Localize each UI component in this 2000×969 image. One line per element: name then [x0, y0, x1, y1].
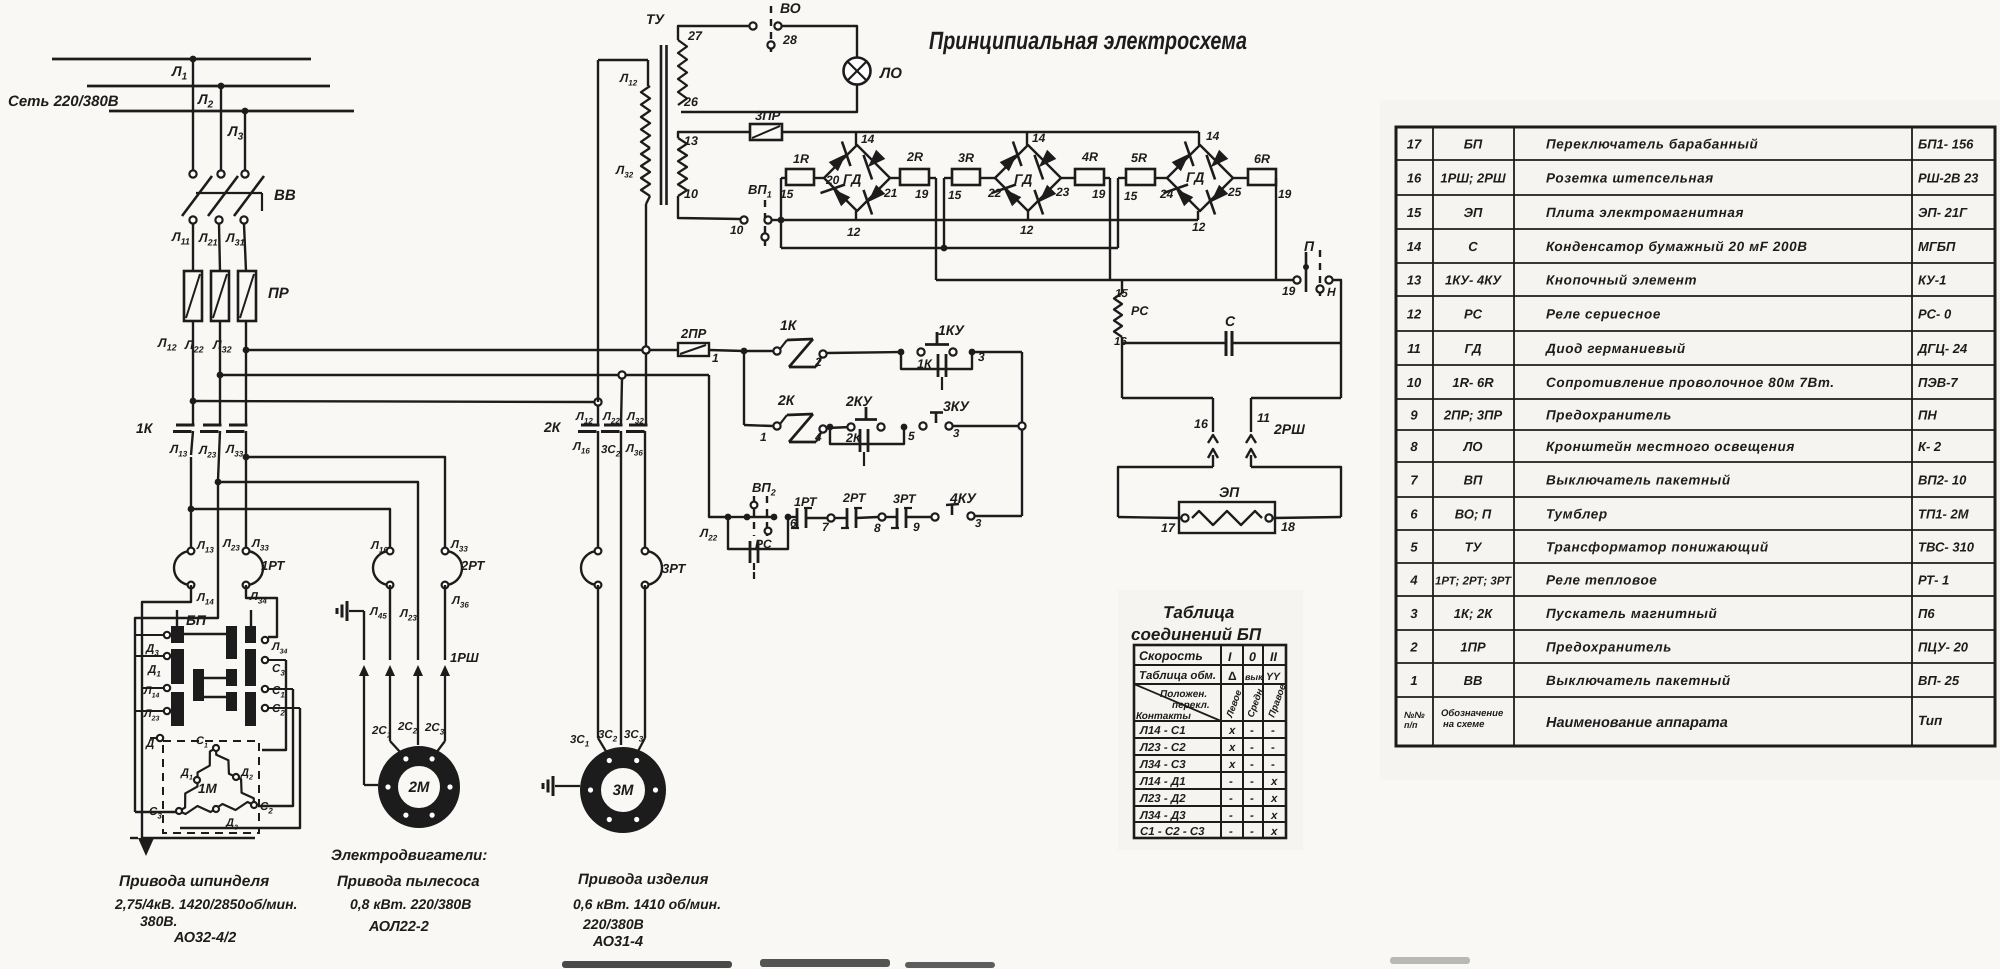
- svg-text:16: 16: [1194, 417, 1209, 431]
- svg-text:24: 24: [1159, 187, 1174, 201]
- terminal 7: [827, 514, 834, 521]
- svg-text:С: С: [1225, 313, 1236, 329]
- thermal contact 2РТ: [846, 508, 849, 528]
- svg-text:25: 25: [1227, 185, 1242, 199]
- wire Л33 down to 1РТ: [245, 457, 247, 547]
- junction before 2КУ: [827, 424, 834, 431]
- contactor 2К contact phase2: [604, 424, 623, 427]
- stop button 1КУ: [917, 348, 924, 355]
- thermal relay 2РТ heater left: [373, 551, 390, 585]
- thermal relay 2РТ heater right: [445, 551, 462, 585]
- svg-text:8: 8: [874, 521, 881, 535]
- wire fuse1 down to 1К: [192, 321, 194, 424]
- transformer ТУ primary winding Л12: [647, 60, 649, 86]
- svg-text:4КУ: 4КУ: [949, 490, 977, 506]
- contactor contact 1К in control row1: [773, 347, 780, 354]
- БП contact bar D1: [245, 626, 256, 643]
- svg-text:Принципиальная электросхема: Принципиальная электросхема: [929, 27, 1247, 55]
- ground arrow at 1М: [138, 838, 154, 856]
- junction branch Л13: [188, 506, 195, 513]
- wire plug upper bar left: [1122, 397, 1213, 399]
- relay РС coil: [1121, 280, 1123, 293]
- junction after 2КУ: [901, 424, 908, 431]
- svg-text:27: 27: [687, 29, 703, 43]
- svg-text:9: 9: [1410, 408, 1418, 423]
- svg-text:ПР: ПР: [268, 285, 290, 302]
- svg-text:ВО: ВО: [780, 0, 801, 16]
- svg-text:РС: РС: [1464, 307, 1483, 322]
- wire tap 10 to ВП1: [678, 196, 740, 219]
- switch ВВ linkage bar and label: [196, 192, 262, 194]
- button 3КУ: [919, 422, 926, 429]
- svg-text:-: -: [1250, 759, 1254, 771]
- wire ВВ to fuse ПР phase1: [192, 224, 194, 271]
- svg-text:1: 1: [760, 430, 767, 444]
- plug 2РШ pin 11 upper: [1250, 398, 1252, 432]
- wire branch Л33 to 2М feeder: [246, 457, 445, 547]
- svg-text:Привода пылесоса: Привода пылесоса: [337, 873, 480, 890]
- svg-text:x: x: [1228, 759, 1236, 771]
- wire Л13 down to 1РТ: [190, 457, 192, 547]
- svg-text:x: x: [1228, 742, 1236, 754]
- svg-text:ТУ: ТУ: [646, 11, 666, 27]
- svg-text:22: 22: [987, 186, 1002, 200]
- svg-text:11: 11: [1257, 411, 1270, 425]
- svg-text:Электродвигатели:: Электродвигатели:: [331, 847, 487, 864]
- БП contact bar D3: [245, 692, 256, 726]
- terminal circle on Л32 feed at transformer: [642, 346, 649, 353]
- wire tap 27 to ВО: [678, 26, 749, 40]
- svg-text:4R: 4R: [1081, 150, 1098, 164]
- transformer ТУ core: [660, 45, 663, 205]
- svg-text:2ПР: 2ПР: [680, 326, 707, 341]
- svg-text:ГД: ГД: [1186, 169, 1204, 185]
- svg-text:1М: 1М: [198, 781, 218, 796]
- svg-text:1R: 1R: [793, 152, 809, 166]
- БП contact bar C2: [226, 669, 237, 686]
- svg-text:ВП: ВП: [1464, 473, 1483, 488]
- БП contact bar A2: [171, 649, 184, 684]
- svg-text:I: I: [1228, 650, 1232, 664]
- contactor 1К contact phase2: [203, 424, 222, 427]
- thermal relay 3РТ heater right: [645, 551, 662, 585]
- start button 2КУ: [847, 423, 854, 430]
- svg-text:3М: 3М: [613, 782, 634, 799]
- wire 4КУ to bus: [975, 515, 1022, 517]
- junction after 1КУ: [969, 349, 976, 356]
- svg-text:ВП2- 10: ВП2- 10: [1918, 473, 1967, 488]
- bus circle row2: [1018, 422, 1025, 429]
- plug 1РШ pin 1: [385, 665, 395, 676]
- svg-text:Положен.: Положен.: [1160, 689, 1207, 700]
- resistor 4R: [1075, 169, 1104, 185]
- svg-text:1ПР: 1ПР: [1460, 640, 1486, 655]
- svg-text:19: 19: [915, 187, 929, 201]
- svg-text:Переключатель барабанный: Переключатель барабанный: [1546, 137, 1759, 152]
- svg-text:Предохранитель: Предохранитель: [1546, 640, 1672, 655]
- svg-text:1РТ; 2РТ; 3РТ: 1РТ; 2РТ; 3РТ: [1435, 576, 1512, 588]
- svg-text:2: 2: [1409, 640, 1418, 655]
- svg-text:3: 3: [1410, 606, 1418, 621]
- svg-text:Привода шпинделя: Привода шпинделя: [119, 873, 269, 890]
- motor 1М vertex С1: [213, 745, 219, 751]
- wire tap 13 to 3ПР: [678, 132, 750, 138]
- svg-text:Л23 - С2: Л23 - С2: [1139, 742, 1186, 754]
- wire 2С1 into motor: [390, 741, 401, 753]
- svg-text:4: 4: [1409, 573, 1418, 588]
- wire 2РТ right to plug: [444, 585, 446, 660]
- БП contact bar C3: [226, 692, 237, 711]
- wire Л32 winding down to 2К: [646, 196, 650, 204]
- БП tie link 2: [204, 677, 226, 679]
- toggle switch ВО: [749, 22, 756, 29]
- svg-text:Сопротивление проволочное 80: Сопротивление проволочное 80м 7Вт.: [1546, 375, 1835, 390]
- transformer ТУ secondary winding 27-26: [678, 40, 687, 105]
- svg-text:3КУ: 3КУ: [943, 398, 970, 414]
- svg-text:П: П: [1304, 238, 1315, 254]
- wire 7 to 2РТ: [835, 517, 847, 519]
- net Л1 supply bus: [52, 58, 311, 61]
- stub bridge1 bottom: [855, 211, 857, 220]
- svg-text:1К: 1К: [780, 317, 798, 333]
- plug 1РШ pin 2: [413, 665, 423, 676]
- wire 2R to drop 19: [929, 177, 936, 179]
- lamp ЛО: [844, 58, 871, 85]
- motor 2М: [388, 756, 450, 818]
- wire ЭП left lead: [1118, 517, 1181, 518]
- wire lamp to tap 26: [681, 84, 857, 112]
- motor 1М vertex С2: [251, 802, 257, 808]
- terminal 8: [878, 513, 885, 520]
- switch ВВ pole 1: [189, 170, 196, 177]
- svg-text:Плита электромагнитная: Плита электромагнитная: [1546, 205, 1744, 220]
- svg-text:С1 - С2 - С3: С1 - С2 - С3: [1140, 826, 1205, 838]
- riser 3R left from bus 15: [943, 178, 945, 248]
- БП input stub left: [176, 610, 178, 626]
- БП terminal С3 right: [262, 657, 268, 663]
- junction feed Л12: [190, 398, 197, 405]
- svg-text:10: 10: [730, 223, 744, 237]
- wire ground to plug 2М: [363, 611, 365, 660]
- plug 2РШ pin 16 upper: [1212, 398, 1214, 432]
- wire Л12 feed up to transformer: [597, 60, 599, 402]
- svg-text:8: 8: [1410, 439, 1418, 454]
- svg-text:Л34 - С3: Л34 - С3: [1139, 759, 1186, 771]
- capacitor С: [1122, 342, 1225, 344]
- svg-text:13: 13: [684, 134, 698, 148]
- svg-text:Реле сериесное: Реле сериесное: [1546, 307, 1661, 322]
- wire 2М phase mid: [417, 547, 419, 660]
- БП contact bar B1: [193, 669, 204, 701]
- thermal contact 1РТ: [796, 508, 799, 528]
- svg-text:ТП1- 2М: ТП1- 2М: [1918, 507, 1970, 522]
- wire ВВ to fuse ПР phase3: [244, 224, 246, 271]
- junction feed Л32: [243, 347, 250, 354]
- junction riser 3R: [941, 245, 948, 252]
- svg-text:2: 2: [814, 355, 822, 369]
- wire 3РТ right to motor: [644, 585, 646, 738]
- contactor contact 2К in control row2: [773, 422, 780, 429]
- drop 4R right to bus 19: [1109, 178, 1111, 280]
- stub bridge1 top: [855, 132, 857, 145]
- svg-text:14: 14: [1206, 129, 1220, 143]
- svg-text:ВП- 25: ВП- 25: [1918, 673, 1960, 688]
- riser 5R left from bus 15: [1117, 178, 1119, 248]
- net Л3 supply bus: [109, 110, 354, 113]
- plug 2РШ pin 11 lower: [1246, 449, 1256, 458]
- svg-text:23: 23: [1055, 185, 1070, 199]
- svg-text:Δ: Δ: [1228, 669, 1237, 683]
- svg-text:ГД: ГД: [1014, 171, 1032, 187]
- wire 1К to 1КУ: [827, 352, 901, 353]
- wire fuse2 down to 1К: [219, 321, 221, 424]
- wire plug lower bar right: [1251, 467, 1341, 517]
- svg-text:2К: 2К: [845, 431, 862, 445]
- wire ВВ to fuse ПР phase2: [219, 224, 220, 271]
- toggle switch П: [1293, 276, 1300, 283]
- junction feed Л22: [217, 372, 224, 379]
- БП tie link 1: [184, 633, 226, 635]
- wire row1 to row2 drop: [743, 351, 745, 425]
- svg-text:12: 12: [847, 225, 861, 239]
- svg-text:БП: БП: [186, 612, 207, 628]
- wire 2С3 into motor: [436, 741, 445, 753]
- svg-text:17: 17: [1407, 137, 1422, 152]
- net bus 15: [781, 247, 1118, 249]
- svg-text:0: 0: [1249, 650, 1256, 664]
- svg-text:Кронштейн местного освещения: Кронштейн местного освещения: [1546, 439, 1795, 454]
- svg-text:2КУ: 2КУ: [845, 393, 873, 409]
- junction branch Л23: [215, 479, 222, 486]
- svg-text:ЭП: ЭП: [1219, 484, 1240, 500]
- svg-text:ЛО: ЛО: [1462, 439, 1482, 454]
- switch ВП2: [753, 496, 755, 536]
- svg-text:РС- 0: РС- 0: [1918, 307, 1952, 322]
- svg-text:Конденсатор бумажный 20 мF: Конденсатор бумажный 20 мF 200В: [1546, 239, 1808, 254]
- svg-text:12: 12: [1407, 307, 1422, 322]
- bypass РС contact: [728, 517, 788, 549]
- wire 2РТ left to plug: [389, 585, 391, 660]
- wire bridge2 to 4R: [1061, 177, 1075, 179]
- parts table frame: [1396, 127, 1995, 746]
- motor 1М tap Д3: [213, 806, 219, 812]
- net Л2 supply bus: [87, 85, 330, 88]
- wire Л23 from 1РТ to БП left: [135, 590, 218, 812]
- resistor 1R: [786, 169, 814, 185]
- svg-text:19: 19: [1092, 187, 1106, 201]
- electromagnetic plate ЭП: [1179, 502, 1275, 533]
- svg-text:1КУ: 1КУ: [938, 322, 965, 338]
- svg-text:Тумблер: Тумблер: [1546, 507, 1608, 522]
- svg-text:на схеме: на схеме: [1443, 719, 1485, 730]
- resistor 6R: [1248, 169, 1276, 185]
- svg-text:10: 10: [684, 187, 698, 201]
- drop 2R right to bus 19: [935, 178, 937, 280]
- svg-text:ВВ: ВВ: [1464, 673, 1483, 688]
- svg-text:ГД: ГД: [843, 171, 861, 187]
- svg-text:БП: БП: [1464, 137, 1483, 152]
- wire plug lower bar left: [1118, 467, 1213, 517]
- thermal relay 1РТ heater phase3: [246, 551, 263, 585]
- wire ВО to lamp: [782, 26, 857, 58]
- stub bridge3 bottom: [1197, 211, 1199, 220]
- wire Л23 down to 1РТ: [217, 482, 219, 590]
- svg-text:6: 6: [1410, 507, 1418, 522]
- wire feed Л12: [193, 401, 594, 402]
- wire БП С1 to motor: [258, 689, 293, 806]
- БП contact bar A1: [171, 626, 184, 643]
- aux contact 1К holding: [901, 352, 972, 369]
- junction ВП1 riser: [778, 217, 785, 224]
- svg-text:15: 15: [1124, 189, 1138, 203]
- svg-text:21: 21: [883, 186, 898, 200]
- svg-text:Розетка штепсельная: Розетка штепсельная: [1546, 171, 1714, 186]
- svg-text:14: 14: [1407, 239, 1422, 254]
- svg-text:9: 9: [913, 520, 920, 534]
- БП input stub right: [250, 610, 252, 626]
- wire БП left lower to motor: [135, 811, 180, 813]
- svg-text:перекл.: перекл.: [1172, 700, 1210, 711]
- thermal contact 3РТ: [896, 508, 899, 528]
- junction row1: [741, 348, 748, 355]
- БП terminal Л14: [164, 685, 170, 691]
- svg-text:ПН: ПН: [1918, 408, 1937, 423]
- resistor 3R: [952, 169, 980, 185]
- svg-text:x: x: [1228, 725, 1236, 737]
- fuse 2ПР: [642, 346, 649, 353]
- switch ВВ pole 3: [241, 170, 248, 177]
- svg-text:14: 14: [1032, 131, 1046, 145]
- svg-text:Трансформатор понижающий: Трансформатор понижающий: [1546, 540, 1769, 555]
- wire 4R to drop 19: [1104, 177, 1110, 179]
- motor 1М winding С1-Д2-С2: [216, 748, 254, 805]
- fuse ПР phase2: [211, 271, 229, 321]
- svg-text:1КУ- 4КУ: 1КУ- 4КУ: [1445, 273, 1502, 288]
- svg-text:2К: 2К: [543, 419, 562, 435]
- connection table frame: [1134, 645, 1286, 838]
- resistor 5R: [1126, 169, 1155, 185]
- svg-text:К- 2: К- 2: [1918, 439, 1942, 454]
- wire bridge3 to 6R: [1233, 177, 1248, 179]
- svg-text:РС: РС: [1131, 304, 1149, 318]
- svg-text:3: 3: [953, 428, 960, 440]
- svg-text:Кнопочный элемент: Кнопочный элемент: [1546, 273, 1697, 288]
- svg-text:АО32-4/2: АО32-4/2: [173, 930, 236, 946]
- svg-text:5: 5: [908, 429, 915, 443]
- svg-text:КУ-1: КУ-1: [1918, 273, 1946, 288]
- junction row3 a: [725, 514, 732, 521]
- svg-text:ПЭВ-7: ПЭВ-7: [1918, 375, 1958, 390]
- svg-text:Тип: Тип: [1918, 713, 1943, 728]
- svg-text:4: 4: [814, 430, 822, 444]
- svg-text:0,8 кВт. 220/380В: 0,8 кВт. 220/380В: [350, 896, 471, 912]
- junction row3 d: [785, 514, 792, 521]
- svg-text:3ПР: 3ПР: [755, 108, 781, 123]
- junction on Л3: [242, 108, 249, 115]
- svg-text:ЭП- 21Г: ЭП- 21Г: [1918, 205, 1968, 220]
- wire БП С2 to motor: [180, 708, 300, 828]
- svg-text:3РТ: 3РТ: [893, 492, 917, 506]
- terminal circle on Л22 feed: [618, 371, 625, 378]
- motor 1М tap Д2: [233, 774, 239, 780]
- stub bridge2 top: [1026, 132, 1028, 145]
- wire bridge1 to 2R: [890, 177, 900, 179]
- svg-text:14: 14: [861, 132, 875, 146]
- svg-text:МГБП: МГБП: [1918, 239, 1956, 254]
- wire to 1РТ contact: [788, 516, 797, 518]
- svg-text:соединений БП: соединений БП: [1131, 625, 1262, 644]
- wire Л34 from 1РТ to БП right: [246, 585, 277, 637]
- transformer ТУ secondary winding 13-10: [678, 138, 687, 196]
- svg-text:18: 18: [1281, 520, 1295, 534]
- junction row3 b: [744, 514, 751, 521]
- svg-text:1РТ: 1РТ: [261, 558, 285, 573]
- thermal relay 1РТ heater phase1: [174, 551, 191, 585]
- wire branch Л13 to 2М feeder: [191, 509, 390, 547]
- svg-text:15: 15: [948, 188, 962, 202]
- wire 3R to bridge2: [980, 177, 995, 179]
- net bus 12: [781, 219, 1198, 221]
- svg-text:ЭП: ЭП: [1464, 205, 1483, 220]
- svg-text:3: 3: [975, 518, 982, 530]
- stub bridge3 top: [1198, 132, 1200, 145]
- svg-text:ДГЦ- 24: ДГЦ- 24: [1917, 341, 1968, 356]
- svg-text:Наименование аппарата: Наименование аппарата: [1546, 715, 1728, 731]
- svg-text:ВО; П: ВО; П: [1455, 507, 1492, 522]
- terminal circle on Л12 feed: [594, 398, 601, 405]
- motor 1М winding С1-Д1-С3: [179, 748, 216, 811]
- svg-text:Контакты: Контакты: [1136, 711, 1191, 722]
- scan artifact bottom strip: [562, 961, 732, 968]
- wire Л22 to row3: [709, 375, 728, 517]
- БП contact bar D2: [245, 649, 256, 686]
- rectifier bridge ГД 2: [995, 145, 1061, 211]
- БП contact bar C1: [226, 626, 237, 659]
- svg-text:РШ-2В 23: РШ-2В 23: [1918, 171, 1979, 186]
- wire П to right vertical: [1333, 280, 1341, 398]
- svg-text:РС: РС: [755, 537, 772, 551]
- wire 1РТ to 7: [806, 517, 827, 519]
- svg-text:-: -: [1229, 776, 1233, 788]
- wire 8 to 3РТ: [886, 516, 897, 518]
- wire 3РТ to 4КУ: [906, 516, 935, 518]
- svg-text:3R: 3R: [958, 151, 974, 165]
- plug 2РШ pin 16 lower: [1208, 449, 1218, 458]
- svg-text:220/380В: 220/380В: [582, 916, 644, 932]
- svg-text:1К: 1К: [136, 420, 154, 436]
- svg-text:15: 15: [1115, 288, 1128, 300]
- wire between ВП2 contacts: [731, 516, 744, 518]
- wire feed Л32 to 2ПР: [246, 349, 646, 351]
- wire Л14 from 1РТ to БП left: [142, 585, 191, 838]
- switch ВВ pole 2: [217, 170, 224, 177]
- svg-text:-: -: [1271, 742, 1275, 754]
- wire ЭП right lead: [1273, 517, 1341, 518]
- wire Л3 drop to ВВ: [244, 111, 246, 170]
- svg-text:АО31-4: АО31-4: [592, 934, 643, 950]
- svg-text:5: 5: [1410, 540, 1418, 555]
- svg-text:1: 1: [712, 351, 719, 365]
- plug 1РШ pin earth: [359, 665, 369, 676]
- wire 2РТ to 8: [856, 517, 878, 518]
- wire earth to 2М frame: [364, 784, 378, 786]
- wire РС bottom to plug bar: [1121, 343, 1123, 398]
- junction on Л2: [218, 83, 225, 90]
- svg-text:x: x: [1270, 810, 1278, 822]
- svg-text:5R: 5R: [1131, 151, 1147, 165]
- svg-text:Диод германиевый: Диод германиевый: [1545, 341, 1686, 356]
- thermal relay 3РТ heater left: [581, 551, 598, 585]
